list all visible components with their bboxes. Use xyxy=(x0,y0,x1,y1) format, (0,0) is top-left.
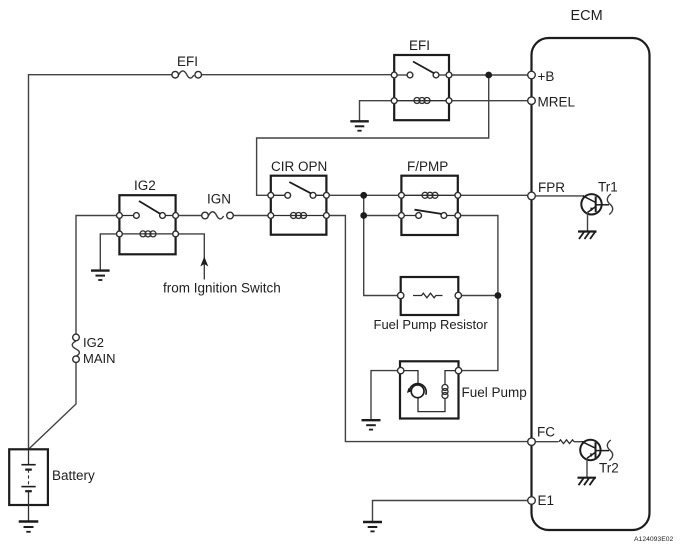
ground IG2 relay coil xyxy=(91,271,110,280)
coil xyxy=(414,98,430,104)
svg-text:A124093E02: A124093E02 xyxy=(634,536,674,543)
junction node B resistor output xyxy=(495,292,502,299)
wire CIR OPN coil to FC terminal xyxy=(326,216,531,442)
svg-text:Tr2: Tr2 xyxy=(599,461,619,476)
relay IG2 xyxy=(117,178,179,254)
wire Tr2 base resistor to Tr2 xyxy=(574,441,584,443)
wire F/PMP coil to FPR terminal xyxy=(458,194,532,196)
wire node A to F/PMP switch xyxy=(364,215,402,217)
svg-text:MREL: MREL xyxy=(538,95,576,110)
battery BAT xyxy=(9,449,95,520)
svg-text:Tr1: Tr1 xyxy=(598,180,618,195)
wire node A down to fuel pump resistor xyxy=(364,195,401,295)
svg-text:FC: FC xyxy=(537,425,555,440)
svg-text:ECM: ECM xyxy=(571,8,603,24)
svg-text:Fuel Pump: Fuel Pump xyxy=(462,385,527,400)
wire battery positive to EFI fuse (left vertical + top horizontal) xyxy=(29,75,176,450)
ECM U1 box xyxy=(532,8,650,530)
emitter wire xyxy=(586,458,588,477)
svg-text:E1: E1 xyxy=(538,493,555,508)
wire E1 terminal to ground xyxy=(373,501,532,522)
wire EFI relay switch to +B terminal xyxy=(449,74,532,76)
terminal FC xyxy=(528,438,536,446)
fuse IGN xyxy=(202,192,234,219)
base resistor xyxy=(559,440,574,444)
svg-text:IG2: IG2 xyxy=(134,178,156,193)
svg-text:F/PMP: F/PMP xyxy=(407,159,448,174)
internal wiring xyxy=(401,371,459,412)
wire fuel pump resistor to node B xyxy=(458,295,498,297)
wire IG2 MAIN fuse to battery xyxy=(29,359,77,449)
svg-text:Battery: Battery xyxy=(52,468,95,483)
relay F/PMP xyxy=(399,159,461,235)
terminal MREL xyxy=(528,97,536,105)
continuation squiggle xyxy=(607,440,612,461)
wire IG2 relay coil from ignition switch xyxy=(176,234,205,280)
ground fuel pump xyxy=(362,420,381,429)
transistor Q1 Tr1 xyxy=(581,180,617,232)
ground Tr2 (chassis) xyxy=(578,478,597,486)
terminal FPR xyxy=(528,192,536,200)
junction node A upper xyxy=(360,192,367,199)
svg-text:from Ignition Switch: from Ignition Switch xyxy=(163,281,281,296)
wire FPR terminal to Tr1 base xyxy=(532,195,585,197)
svg-text:IGN: IGN xyxy=(207,192,231,207)
svg-text:+B: +B xyxy=(538,69,555,84)
transistor Q2 Tr2 xyxy=(559,440,619,477)
fuel pump M1 xyxy=(398,361,527,418)
svg-text:EFI: EFI xyxy=(177,54,198,69)
ground E1 xyxy=(363,522,382,531)
svg-text:IG2: IG2 xyxy=(83,335,104,350)
svg-text:EFI: EFI xyxy=(409,38,430,53)
svg-text:CIR OPN: CIR OPN xyxy=(271,159,327,174)
wire CIR OPN switch to F/PMP coil xyxy=(326,194,401,196)
svg-text:Fuel Pump Resistor: Fuel Pump Resistor xyxy=(374,317,489,332)
wire IGN fuse to CIR OPN coil xyxy=(230,215,271,217)
svg-text:MAIN: MAIN xyxy=(83,351,116,366)
junction node A lower xyxy=(360,212,367,219)
wire fuel pump to ground xyxy=(371,371,401,420)
svg-text:FPR: FPR xyxy=(538,180,565,195)
wire EFI fuse to EFI relay switch xyxy=(198,74,394,76)
wire IG2 relay switch to IGN fuse xyxy=(176,215,205,217)
relay EFI xyxy=(391,38,452,120)
terminal E1 xyxy=(528,497,536,505)
emitter wire xyxy=(587,213,589,232)
arrow from ignition switch xyxy=(200,257,208,267)
wire FC terminal to Tr2 base resistor xyxy=(532,441,559,443)
wire +B junction down and across to CIR OPN switch xyxy=(257,75,489,195)
wire EFI relay coil to MREL terminal xyxy=(449,100,532,102)
resistor R1 fuel pump resistor xyxy=(374,277,489,332)
junction +B node xyxy=(485,72,492,79)
motor circle with arrow xyxy=(411,385,424,398)
wire IG2 relay switch left down to IG2 MAIN fuse xyxy=(76,216,119,338)
ground battery xyxy=(19,522,39,532)
continuation squiggle xyxy=(607,194,612,215)
ground Tr1 (chassis) xyxy=(578,232,597,240)
switch blade xyxy=(413,62,435,74)
wire EFI relay coil to ground xyxy=(360,101,395,121)
fuse EFI xyxy=(172,54,202,78)
terminals xyxy=(391,72,397,78)
wire F/PMP switch to fuel pump xyxy=(458,216,498,371)
ground EFI relay coil xyxy=(350,121,369,130)
relay CIR OPN xyxy=(268,159,329,235)
vertical coil xyxy=(442,385,448,399)
terminal +B xyxy=(528,71,536,79)
switch contact circles xyxy=(407,72,413,78)
fuse IG2 MAIN xyxy=(72,334,115,366)
wire IG2 relay coil to ground xyxy=(100,234,119,270)
